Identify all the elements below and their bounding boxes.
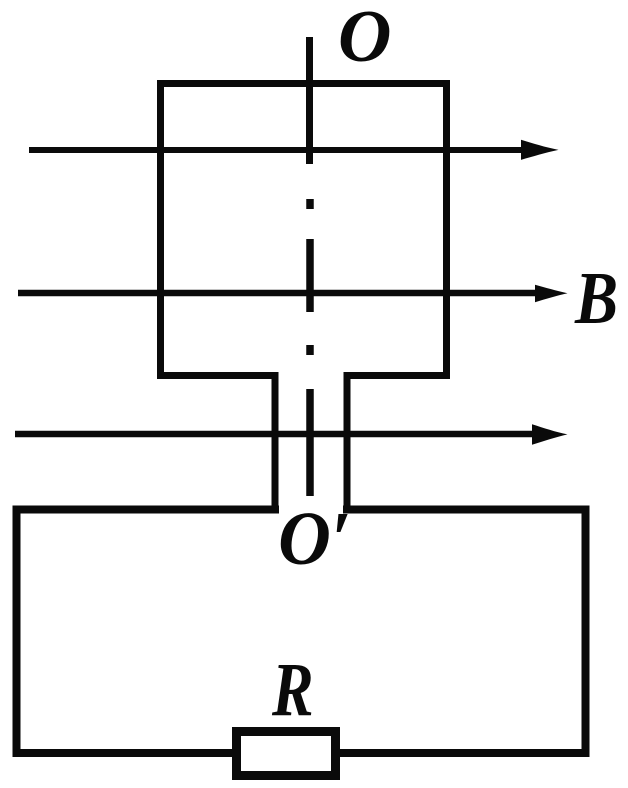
- circuit right edge: [582, 506, 590, 758]
- resistor R box: [237, 732, 336, 776]
- circuit bottom edge right segment: [337, 749, 590, 757]
- arrowhead 1: [521, 140, 559, 160]
- external circuit rectangle: [13, 506, 590, 758]
- left lead wire: [272, 372, 279, 513]
- coil top edge: [157, 80, 450, 87]
- coil right edge: [443, 80, 450, 379]
- coil bottom edge left segment: [157, 372, 279, 379]
- circuit bottom edge left segment: [13, 749, 236, 757]
- svg-text:O: O: [338, 0, 391, 78]
- field line 1: [29, 140, 559, 160]
- coil left edge: [157, 80, 164, 379]
- right lead wire: [344, 372, 351, 513]
- circuit top edge left segment: [13, 506, 280, 514]
- axis OO' solid top segment: [306, 37, 313, 164]
- svg-text:O′: O′: [278, 498, 351, 582]
- axis OO' dash-dot segments: [306, 199, 314, 496]
- svg-text:B: B: [574, 258, 618, 340]
- arrowhead 2: [535, 285, 568, 302]
- field line 3: [15, 424, 568, 445]
- coil (rotating loop): [157, 80, 450, 513]
- circuit left edge: [13, 506, 21, 758]
- svg-text:R: R: [271, 648, 314, 732]
- field line 2 (B): [18, 285, 568, 302]
- coil bottom edge right segment: [344, 372, 451, 379]
- arrowhead 3: [532, 424, 568, 445]
- circuit top edge right segment: [343, 506, 590, 514]
